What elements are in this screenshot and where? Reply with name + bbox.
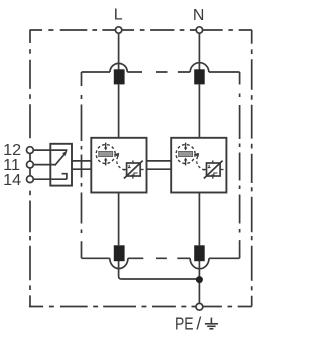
svg-text:/: / [196, 314, 201, 334]
wire: L conductor into SPD 1 [118, 84, 120, 137]
svg-text:PE: PE [175, 314, 194, 334]
wire: L conductor upper [118, 33, 120, 69]
wire: N conductor upper [198, 33, 200, 69]
terminal 12 [27, 147, 34, 154]
bottom edge middle dashed [128, 257, 190, 259]
bridge arc under N conductor [190, 258, 209, 269]
wire: SPD1 to bottom disconnect [118, 193, 120, 246]
remote signalling changeover contact box [50, 144, 72, 186]
SPD internals (module 1) [96, 143, 143, 179]
mechanical coupling (relay - SPD1) [72, 160, 91, 162]
varistor ticks [123, 160, 143, 178]
enclosure left edge [29, 30, 31, 307]
SPD internals (module 2) [176, 143, 223, 179]
terminal N [196, 27, 202, 33]
bridge arc under L conductor [110, 258, 128, 268]
bottom actuation arrow [105, 160, 107, 165]
terminal L [115, 27, 121, 33]
svg-text:L: L [114, 7, 123, 24]
wire: terminal 12 [33, 149, 67, 151]
earth symbol [205, 318, 218, 329]
enclosure bottom edge [29, 306, 252, 308]
right edge dashed [239, 72, 241, 258]
disconnector contact block [99, 151, 113, 156]
wire: N down to PE terminal [198, 261, 200, 304]
mechanical coupling (SPD1 - SPD2) [147, 160, 172, 162]
bridge arc over L conductor [110, 63, 127, 72]
wire: L to PE bus (turn right) [119, 261, 197, 279]
top actuation arrow [105, 143, 107, 148]
thermal disconnect device (L, top) [114, 69, 125, 84]
enclosure right edge [251, 30, 253, 307]
SPD module 1 box [91, 138, 146, 193]
top edge right segment [209, 71, 240, 73]
left edge dashed [81, 72, 83, 258]
thermal disconnect device (N, top) [194, 69, 205, 84]
contact 14 hook [62, 174, 67, 180]
wire: terminal 11 [33, 164, 55, 166]
inner protective-circuit boundary (dashed box) [82, 63, 240, 269]
varistor diagonal [124, 161, 143, 179]
SPD module 2 box [171, 138, 226, 193]
junction node [196, 276, 203, 283]
thermal disconnector symbol (dashed circle) [96, 145, 115, 164]
wire: N conductor into SPD 2 [198, 84, 200, 137]
svg-text:14: 14 [3, 172, 21, 189]
trigger arrow (dashed, varistor to disconnector) [117, 156, 125, 170]
enclosure border (outer dash-dot box) [29, 30, 252, 307]
wire: terminal 14 [33, 178, 67, 180]
top edge left segment [82, 71, 111, 73]
characteristic marks [128, 165, 131, 168]
terminal 11 [27, 161, 34, 168]
wire: SPD2 to bottom disconnect [198, 193, 200, 246]
bridge arc over N conductor [190, 63, 209, 72]
enclosure top edge [30, 29, 252, 31]
varistor symbol box [127, 163, 141, 176]
bottom edge left segment [82, 257, 110, 259]
terminal 14 [27, 176, 34, 183]
bottom edge right segment [209, 257, 240, 259]
disconnect device (L, bottom) [114, 245, 125, 261]
top edge middle dashed segment [127, 71, 190, 73]
terminal PE [196, 303, 203, 310]
svg-text:N: N [193, 7, 205, 24]
disconnect device (N, bottom) [194, 245, 205, 261]
changeover mover [55, 154, 65, 166]
